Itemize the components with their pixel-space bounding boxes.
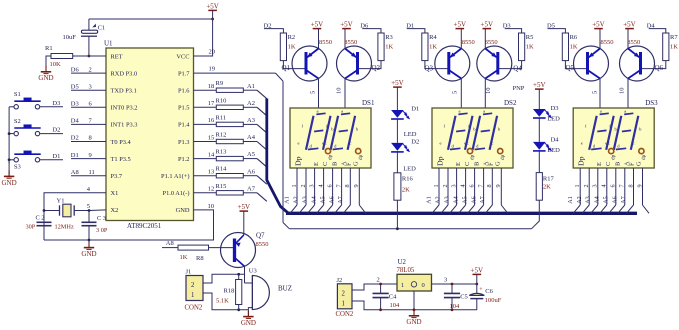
svg-text:8550: 8550 <box>319 39 332 46</box>
wire A2 bus entry <box>257 107 267 116</box>
svg-text:LED: LED <box>547 147 560 154</box>
display DS3 dual 7-segment <box>573 99 658 168</box>
svg-text:100uF: 100uF <box>485 297 502 304</box>
svg-text:1: 1 <box>401 282 404 289</box>
segment a digit2 DS2 <box>483 113 492 114</box>
segment g digit1 DS3 <box>597 130 606 131</box>
wire VCC pin 20 <box>194 19 213 56</box>
switch S2 pushbutton <box>9 118 41 136</box>
svg-text:B: B <box>474 162 481 166</box>
svg-text:1K: 1K <box>526 44 534 51</box>
svg-text:a: a <box>459 109 461 114</box>
svg-text:R16: R16 <box>402 176 414 183</box>
segment f-e digit1 DS3 <box>589 116 597 150</box>
svg-text:P1.1 A1(+): P1.1 A1(+) <box>161 173 189 180</box>
svg-text:R7: R7 <box>670 34 678 41</box>
svg-text:Dp: Dp <box>294 156 303 166</box>
svg-text:19: 19 <box>209 65 216 72</box>
wire U2 ground pin <box>413 291 415 310</box>
svg-text:A2: A2 <box>435 196 442 204</box>
ground at R1 <box>38 66 53 82</box>
svg-text:P1.7: P1.7 <box>178 70 190 77</box>
wire DS2 pin 8 to bus <box>485 205 492 213</box>
svg-text:A5: A5 <box>319 196 326 204</box>
capacitor C4 104 <box>373 284 401 310</box>
svg-text:1K: 1K <box>570 44 578 51</box>
svg-text:7: 7 <box>478 184 485 187</box>
segment d digit1 DS3 <box>591 148 601 149</box>
svg-text:dp: dp <box>641 154 647 160</box>
segment b-c digit1 DS2 <box>465 116 473 150</box>
svg-text:1K: 1K <box>670 44 678 51</box>
svg-text:2: 2 <box>583 184 590 187</box>
svg-text:8550: 8550 <box>462 39 475 46</box>
wire pin 12 stub <box>194 192 217 194</box>
wire net D5 to pin 3 <box>71 89 106 91</box>
node R18 top junction <box>237 273 240 276</box>
svg-text:CON2: CON2 <box>336 311 354 318</box>
svg-text:GND: GND <box>38 74 53 82</box>
segment dp digit1 DS2 <box>467 149 472 154</box>
svg-text:A5: A5 <box>603 196 610 204</box>
wire DS2 pin 2 to bus <box>441 205 448 213</box>
wire S2 to net D2 <box>40 133 63 135</box>
wire +5V to Q4 emitter <box>484 29 486 49</box>
wire D2 to R2 <box>264 29 283 33</box>
svg-text:1: 1 <box>433 184 440 187</box>
wire DS2 pin 4 to bus <box>459 205 466 213</box>
svg-text:dp: dp <box>358 154 364 160</box>
segment dp digit2 DS2 <box>498 149 503 154</box>
wire GND stem <box>88 240 90 248</box>
segment b-c digit1 DS1 <box>323 116 331 150</box>
wire S3 to net D1 <box>40 159 63 161</box>
svg-text:Q6: Q6 <box>655 64 664 72</box>
wire common to ground <box>8 160 10 177</box>
svg-text:10uF: 10uF <box>63 34 77 41</box>
resistor R16 2K <box>394 173 414 200</box>
svg-text:12MHz: 12MHz <box>55 223 74 230</box>
resistor R15 1K <box>216 183 244 195</box>
resistor R17 2K <box>536 173 554 201</box>
node R16 rail junction <box>396 227 399 230</box>
svg-text:R6: R6 <box>570 34 578 41</box>
wire pin 19 P1.7 <box>194 72 276 74</box>
svg-text:A2: A2 <box>576 196 583 204</box>
svg-text:C6: C6 <box>485 288 493 295</box>
svg-text:1K: 1K <box>288 44 296 51</box>
+5V supply at Q3 <box>454 21 467 29</box>
svg-text:1: 1 <box>291 184 298 187</box>
crystal Y1 12MHz <box>44 198 89 231</box>
svg-text:5: 5 <box>310 91 317 94</box>
svg-text:10: 10 <box>618 88 625 95</box>
svg-text:e: e <box>605 141 607 146</box>
resistor R14 1K <box>216 166 244 178</box>
svg-text:c: c <box>349 141 351 146</box>
svg-text:PNP: PNP <box>513 85 525 92</box>
+5V supply at Q1 <box>311 21 324 29</box>
wire R3 to Q2 base <box>358 61 382 69</box>
wire +5V stem to rail <box>212 10 214 19</box>
svg-text:A1: A1 <box>567 196 574 204</box>
resistor R11 1K <box>216 114 244 126</box>
svg-text:C: C <box>322 162 329 166</box>
svg-text:D3: D3 <box>52 100 60 107</box>
svg-text:A7: A7 <box>337 196 344 204</box>
svg-text:C 3: C 3 <box>97 215 106 222</box>
wire DS2 pin 4 stub <box>465 168 467 205</box>
svg-text:J1: J1 <box>186 269 192 276</box>
wire +5V rail to C1 <box>89 18 213 20</box>
svg-text:6: 6 <box>469 184 476 187</box>
wire pin 18 stub <box>194 89 217 91</box>
svg-text:C 2: C 2 <box>36 214 45 221</box>
segment d digit2 DS2 <box>475 148 485 149</box>
segment g digit2 DS3 <box>622 130 631 131</box>
svg-text:2K: 2K <box>402 186 410 193</box>
svg-text:P1.2: P1.2 <box>178 156 190 163</box>
svg-text:C: C <box>464 162 471 166</box>
svg-text:5: 5 <box>452 91 459 94</box>
pin name row DS2 <box>436 154 506 166</box>
LED D1 <box>391 105 419 138</box>
wire DS2 pin 3 to bus <box>450 205 457 213</box>
wire bus bundle vertical <box>267 99 289 214</box>
svg-text:R4: R4 <box>429 34 437 41</box>
svg-text:A3: A3 <box>585 196 592 204</box>
svg-text:RET: RET <box>111 53 123 60</box>
wire DS2 pin 3 stub <box>456 168 458 205</box>
svg-text:C5: C5 <box>460 293 468 300</box>
svg-text:F: F <box>629 162 636 166</box>
svg-text:R11: R11 <box>216 114 227 121</box>
svg-text:A4: A4 <box>247 134 256 141</box>
svg-text:D5: D5 <box>71 83 79 90</box>
svg-text:+5V: +5V <box>471 266 484 274</box>
wire pin 14 stub <box>194 158 217 160</box>
wire R11 to bus <box>243 123 257 125</box>
wire DS1 pin 3 to bus <box>308 205 315 213</box>
resistor R18 5.1K <box>216 274 242 310</box>
wire D2 to R16 <box>396 152 398 173</box>
node C1/RET junction <box>88 55 91 58</box>
svg-text:AT89C2051: AT89C2051 <box>127 222 162 230</box>
svg-text:6: 6 <box>327 184 334 187</box>
+5V supply LED column A <box>391 79 404 87</box>
svg-text:R9: R9 <box>216 80 224 87</box>
segment letters DS2 <box>440 109 501 149</box>
svg-text:R12: R12 <box>216 132 227 139</box>
transistor Q6 8550 PNP <box>620 39 664 81</box>
segment letters DS1 <box>298 109 359 149</box>
svg-text:GND: GND <box>2 179 17 187</box>
resistor R6 1K <box>562 33 578 61</box>
svg-text:6: 6 <box>610 184 617 187</box>
wire rail to R17 <box>532 200 540 229</box>
wire A6 bus entry <box>257 176 267 185</box>
svg-text:B: B <box>615 162 622 166</box>
segment d digit1 DS2 <box>450 148 460 149</box>
svg-text:10K: 10K <box>50 61 62 68</box>
wire DS3 pin 8 stub <box>633 168 635 205</box>
svg-text:A1: A1 <box>426 196 433 204</box>
svg-text:D4: D4 <box>551 137 560 144</box>
svg-text:VCC: VCC <box>176 53 189 60</box>
switch S3 pushbutton <box>9 151 41 171</box>
svg-text:T0 P3.4: T0 P3.4 <box>111 139 132 146</box>
svg-text:2: 2 <box>300 184 307 187</box>
svg-text:9: 9 <box>495 184 502 187</box>
svg-text:5: 5 <box>87 203 90 210</box>
node C4 top junction <box>379 283 382 286</box>
svg-text:R5: R5 <box>526 34 534 41</box>
svg-text:2: 2 <box>377 276 380 283</box>
pin name row DS1 <box>294 154 364 166</box>
svg-text:T1 P3.5: T1 P3.5 <box>111 156 131 163</box>
svg-text:c: c <box>633 141 635 146</box>
svg-text:P1.4: P1.4 <box>178 122 190 129</box>
svg-text:X1: X1 <box>111 190 119 197</box>
svg-text:9: 9 <box>636 184 643 187</box>
wire Q7 collector to buzzer node <box>244 266 246 283</box>
wire D3 to D4 <box>538 118 540 142</box>
svg-text:D3: D3 <box>71 101 79 108</box>
node +5V/VCC junction <box>211 18 214 21</box>
wire DS1 pin 3 stub <box>314 168 316 205</box>
wire U2 output rail <box>432 283 478 285</box>
svg-text:D4: D4 <box>71 118 80 125</box>
svg-text:1K: 1K <box>429 44 437 51</box>
wire net A8 to pin 11 <box>71 175 106 177</box>
wire DS1 pin 2 stub <box>305 168 307 205</box>
segment b-c digit2 DS3 <box>631 116 639 150</box>
node R18 bottom junction <box>237 308 240 311</box>
ground at U2 <box>406 310 421 326</box>
svg-text:+5V: +5V <box>592 21 605 29</box>
svg-text:c: c <box>608 141 610 146</box>
svg-text:A4: A4 <box>594 196 601 204</box>
svg-text:12: 12 <box>208 186 215 193</box>
node crystal right junction <box>88 209 91 212</box>
resistor R3 1K <box>378 33 394 61</box>
wire DS1 pin 9 stub <box>358 168 360 205</box>
svg-text:4: 4 <box>318 184 325 187</box>
wire J1 pin1 to ground rail <box>203 293 248 310</box>
svg-text:LED: LED <box>403 165 416 172</box>
wire DS2 pin 8 stub <box>491 168 493 205</box>
transistor Q5 8550 PNP <box>566 39 614 81</box>
segment g digit1 DS2 <box>456 130 465 131</box>
svg-text:D2: D2 <box>52 127 60 134</box>
svg-text:R8: R8 <box>196 255 204 262</box>
segment g digit1 DS1 <box>314 130 323 131</box>
wire R1 to RET pin 1 <box>73 55 106 57</box>
svg-text:GND: GND <box>241 319 256 327</box>
svg-text:R13: R13 <box>216 149 227 156</box>
svg-text:Q7: Q7 <box>256 232 265 240</box>
svg-text:G: G <box>353 161 360 166</box>
wire DS3 pin 6 stub <box>615 168 617 205</box>
svg-text:A3: A3 <box>301 196 308 204</box>
ground at buzzer <box>241 311 256 327</box>
svg-text:R1: R1 <box>45 45 53 52</box>
wire DS1 pin 2 to bus <box>299 205 306 213</box>
+5V supply LED column B <box>533 81 546 89</box>
svg-text:B: B <box>332 162 339 166</box>
svg-text:a: a <box>341 109 343 114</box>
wire DS3 pin 1 stub <box>579 168 581 205</box>
svg-text:3: 3 <box>451 184 458 187</box>
svg-text:C: C <box>605 162 612 166</box>
wire R7 to Q6 base <box>641 61 666 69</box>
pin name row DS3 <box>577 154 647 166</box>
wire DS3 pin 2 to bus <box>582 205 589 213</box>
resistor R8 1K <box>178 245 209 262</box>
svg-text:18: 18 <box>208 83 215 90</box>
svg-text:a: a <box>624 109 626 114</box>
wire A5 bus entry <box>257 159 267 168</box>
segment letters DS3 <box>581 109 642 149</box>
wire +5V to Q7 emitter <box>243 211 245 235</box>
wire DS1 pin 7 to bus <box>335 205 342 213</box>
svg-text:A7: A7 <box>479 196 486 204</box>
svg-text:30P: 30P <box>26 223 36 230</box>
wire R8 to Q7 base <box>209 247 235 249</box>
svg-text:10: 10 <box>335 88 342 95</box>
resistor R2 1K <box>280 33 296 61</box>
svg-text:Q4: Q4 <box>513 65 522 73</box>
wire D5 to R6 <box>548 29 566 33</box>
wire DS3 pin 4 to bus <box>600 205 607 213</box>
svg-text:A6: A6 <box>612 196 619 204</box>
wire bus horizontal <box>286 212 637 215</box>
svg-text:4: 4 <box>460 184 467 187</box>
svg-text:INT1 P3.3: INT1 P3.3 <box>111 122 138 129</box>
svg-text:R2: R2 <box>288 34 296 41</box>
svg-text:S2: S2 <box>14 118 21 125</box>
segment g digit2 DS1 <box>339 130 348 131</box>
wire A7 bus entry <box>257 193 267 202</box>
wire J2 pin1 to ground rail <box>352 301 477 310</box>
wire DS3 pin 3 to bus <box>591 205 598 213</box>
wire DS3 pin 9 to bus right <box>643 205 650 213</box>
svg-text:4: 4 <box>601 184 608 187</box>
segment dp digit2 DS3 <box>639 149 644 154</box>
wire R4 to Q3 base <box>425 61 449 69</box>
svg-text:2: 2 <box>191 282 195 289</box>
svg-text:DS3: DS3 <box>645 99 658 107</box>
svg-text:X2: X2 <box>111 207 119 214</box>
svg-text:3: 3 <box>309 184 316 187</box>
svg-text:7: 7 <box>619 184 626 187</box>
resistor R13 1K <box>216 149 244 161</box>
wire R14 to bus <box>243 175 257 177</box>
svg-text:Q1: Q1 <box>282 64 291 72</box>
wire DS2 pin 7 stub <box>483 168 485 205</box>
svg-text:INT0 P3.2: INT0 P3.2 <box>111 105 138 112</box>
svg-text:16: 16 <box>208 117 215 124</box>
svg-text:Q5: Q5 <box>566 64 575 72</box>
wire crystal ground rail <box>44 239 89 241</box>
svg-text:+5V: +5V <box>391 79 404 87</box>
wire A1 bus entry <box>257 90 267 99</box>
wire D4 to R7 <box>649 29 666 33</box>
wire Q4 collector to display <box>484 79 486 109</box>
switch S1 pushbutton <box>9 91 41 109</box>
segment a digit2 DS1 <box>341 113 350 114</box>
svg-text:9: 9 <box>89 152 92 159</box>
wire buzzer ground stem <box>247 310 249 317</box>
wire S1 to net D3 <box>40 106 63 108</box>
svg-text:11: 11 <box>89 169 95 176</box>
svg-text:e: e <box>464 141 466 146</box>
node +5V output junction <box>475 283 478 286</box>
svg-text:+: + <box>479 287 483 293</box>
wire DS1 pin 8 to bus <box>343 205 350 213</box>
svg-text:BUZ: BUZ <box>278 284 292 292</box>
capacitor C3 30P <box>82 211 108 241</box>
svg-text:a: a <box>483 109 485 114</box>
wire DS2 pin 6 stub <box>474 168 476 205</box>
wire J2 pin2 to input rail <box>352 284 397 290</box>
svg-text:+5V: +5V <box>238 203 251 211</box>
svg-text:E: E <box>596 162 603 166</box>
svg-text:+5V: +5V <box>533 81 546 89</box>
svg-text:GND: GND <box>81 250 96 258</box>
transistor Q2 8550 PNP <box>337 39 381 81</box>
wire R2 to Q1 base <box>283 61 306 69</box>
wire Q1 collector to display <box>318 79 320 109</box>
svg-text:3 0P: 3 0P <box>96 227 108 234</box>
wire R9 to bus <box>243 89 257 91</box>
svg-text:E: E <box>455 162 462 166</box>
segment b-c digit2 DS2 <box>490 116 498 150</box>
svg-text:D1: D1 <box>71 152 79 159</box>
wire DS3 pin 9 stub <box>642 168 644 205</box>
svg-text:DS1: DS1 <box>362 99 375 107</box>
wire DS3 pin 7 to bus <box>618 205 625 213</box>
svg-text:Q3: Q3 <box>425 65 434 73</box>
wire +5V to Q3 emitter <box>460 29 462 49</box>
svg-text:9: 9 <box>353 184 360 187</box>
segment d digit2 DS1 <box>333 148 343 149</box>
wire DS1 pin 6 to bus <box>326 205 333 213</box>
svg-text:A1: A1 <box>247 83 255 90</box>
wire DS3 pin 2 stub <box>588 168 590 205</box>
wire R13 to bus <box>243 158 257 160</box>
svg-text:A7: A7 <box>247 185 256 192</box>
svg-text:a: a <box>600 109 602 114</box>
connector J2 CON2 <box>336 277 354 318</box>
wire DS1 pin 1 to bus <box>290 205 297 213</box>
svg-text:c: c <box>325 141 327 146</box>
resistor R5 1K <box>519 33 535 61</box>
svg-text:10: 10 <box>485 88 492 95</box>
svg-text:A2: A2 <box>293 196 300 204</box>
wire DS1 pin 6 stub <box>332 168 334 205</box>
svg-text:e: e <box>298 141 300 146</box>
wire A8 to R8 <box>162 247 178 249</box>
svg-text:3: 3 <box>89 83 92 90</box>
wire DS2 pin 1 to bus <box>432 205 439 213</box>
svg-text:S3: S3 <box>14 163 21 170</box>
regulator U2 78L05 <box>397 259 432 291</box>
wire +5V to Q1 emitter <box>318 29 320 49</box>
wire DS2 pin 6 to bus <box>468 205 475 213</box>
wire R15 to bus <box>243 192 257 194</box>
svg-text:8550: 8550 <box>627 39 640 46</box>
